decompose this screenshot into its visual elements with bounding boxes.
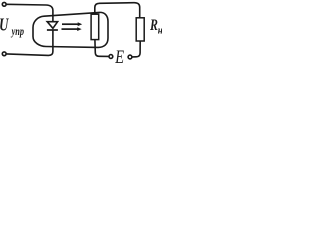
svg-text:U: U: [0, 16, 9, 35]
svg-text:н: н: [158, 25, 162, 37]
svg-text:R: R: [149, 17, 158, 35]
svg-text:упр: упр: [10, 26, 24, 39]
svg-text:E: E: [114, 46, 124, 65]
